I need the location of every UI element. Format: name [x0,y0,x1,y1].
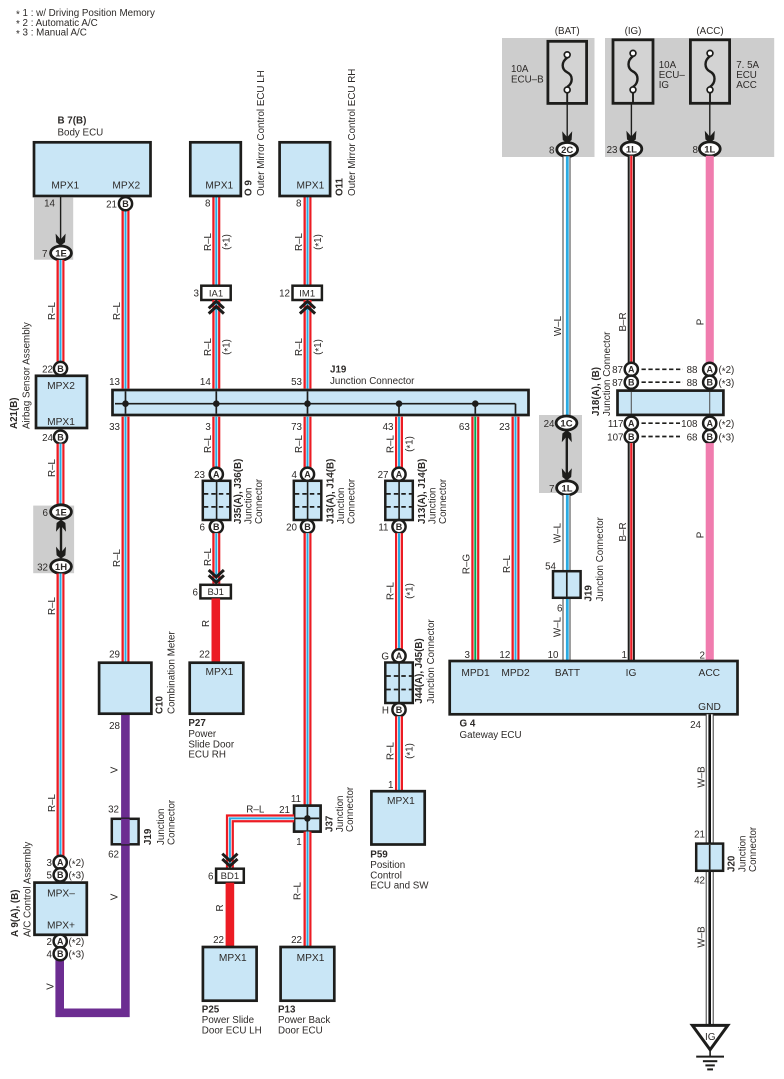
svg-text:J19: J19 [330,365,347,376]
svg-text:ECU RH: ECU RH [188,750,226,761]
svg-text:B: B [57,364,64,374]
svg-text:21: 21 [694,830,705,841]
svg-text:6: 6 [557,603,563,614]
svg-text:R–L: R–L [203,337,214,356]
svg-text:J20: J20 [727,855,738,872]
fuse 7.5A ECU-ACC (ACC) [690,26,759,103]
svg-text:C10: C10 [155,695,166,714]
svg-text:P13: P13 [278,1005,296,1016]
J19 bar pin labels bottom 33 3 73 43 63 23 [109,422,510,433]
svg-text:(*1): (*1) [222,339,234,355]
svg-text:3: 3 [47,858,53,869]
junction connector J19 (left small) pins 32 62 [108,799,177,860]
svg-text:A/C Control Assembly: A/C Control Assembly [23,842,34,937]
wire W-L from 2C to 1C [553,156,570,416]
svg-text:21: 21 [279,805,290,816]
svg-text:6: 6 [43,508,49,519]
svg-text:(*1): (*1) [222,234,234,250]
svg-text:R–L: R–L [294,434,305,453]
svg-text:Connector: Connector [345,786,356,832]
svg-text:MPX1: MPX1 [297,180,325,191]
junction connector J44(A) J45(B) [385,618,437,703]
junction connector J13(A) J14(B) first [294,459,358,524]
svg-text:P: P [695,318,706,325]
gray shade fuse block IG/ACC [605,38,774,157]
node circle A pin 2 (A/C MPX+) [47,935,85,950]
svg-text:IG: IG [705,1032,716,1043]
svg-text:Gateway ECU: Gateway ECU [460,730,522,741]
wire R-L from IA1 to J19 bar pin 14 [203,300,234,389]
svg-text:32: 32 [108,804,119,815]
svg-text:GND: GND [698,702,721,713]
svg-text:68: 68 [687,432,698,443]
svg-text:1H: 1H [55,562,67,573]
svg-text:H: H [382,706,389,717]
wire B-R from J18 to Gateway ECU IG pin 1 [618,443,635,661]
power back door ECU P13 pin 22 MPX1 [278,935,334,1036]
svg-text:A: A [396,470,403,480]
svg-text:23: 23 [607,145,618,156]
connector 1H pin 32 [37,560,71,574]
svg-text:2: 2 [700,651,705,662]
svg-text:Junction Connector: Junction Connector [426,618,437,703]
gateway ECU G4 terminals MPD1 MPD2 BATT IG ACC GND [450,650,738,741]
connector 1E pin 7 [42,246,71,260]
svg-text:B: B [396,522,403,532]
svg-text:A: A [628,419,635,429]
svg-text:MPX2: MPX2 [47,381,75,392]
double arrow link 1C to 1L [562,430,572,481]
svg-text:B: B [628,432,635,442]
svg-text:8: 8 [205,199,211,210]
wire R-L from J13 second circle B to J44 circle A [386,533,417,649]
svg-text:Outer Mirror Control ECU RH: Outer Mirror Control ECU RH [347,69,358,196]
svg-text:14: 14 [200,377,211,388]
node circle A pin 87-88 row1 on B-R [612,363,638,376]
svg-text:Airbag Sensor Assembly: Airbag Sensor Assembly [22,322,33,429]
chevron arrows above BD1 [222,854,237,866]
svg-text:B: B [57,432,64,442]
svg-text:MPX1: MPX1 [387,796,415,807]
svg-text:Connector: Connector [438,478,449,524]
svg-text:(*1): (*1) [404,583,416,599]
connector 1E pin 6 [43,505,72,519]
dashed link row2 [642,381,684,383]
chevron arrows below IA1 [209,301,224,313]
svg-text:J19: J19 [143,828,154,845]
svg-text:87: 87 [612,378,623,389]
power slide door ECU LH P25 pin 22 MPX1 [202,935,262,1036]
wire V from Combination Meter pin 28 to A/C Control MPX+ [46,714,126,1013]
svg-text:W–B: W–B [696,926,707,948]
svg-text:R–L: R–L [246,804,265,815]
svg-text:1L: 1L [561,483,572,494]
svg-text:12: 12 [499,650,510,661]
svg-text:1E: 1E [55,507,67,518]
connector 1L pin 8 [693,142,721,156]
svg-text:R–L: R–L [112,301,123,320]
svg-text:B–R: B–R [618,522,629,541]
node circle A pin 23 (J35) [194,468,223,481]
svg-text:(*2): (*2) [69,858,85,870]
svg-text:Door ECU LH: Door ECU LH [202,1026,262,1037]
svg-text:3: 3 [194,289,200,300]
node circle B pin 6 (J35) [200,520,223,533]
node circle B pin 68 row4 on P [687,430,735,445]
svg-text:B: B [122,199,129,209]
svg-text:J19: J19 [584,585,595,602]
svg-text:J35(A), J36(B): J35(A), J36(B) [233,459,244,524]
node circle B pin 11 (J13 second) [378,520,405,533]
svg-text:R–G: R–G [462,554,473,574]
svg-text:MPX1: MPX1 [51,180,79,191]
svg-text:6: 6 [208,872,214,883]
node circle B pin 5 (A/C MPX-) [47,868,85,883]
wire fuse ECU-ACC to connector 1L with arrow [705,103,715,143]
node circle A pin 108 row3 on P [681,417,734,432]
wire R-L from Body ECU MPX2 circle B to J19 bar pin 13 [112,210,129,388]
svg-text:ECU and SW: ECU and SW [370,881,429,892]
position control ECU and SW P59 pin 1 MPX1 [370,780,429,891]
svg-text:107: 107 [607,432,623,443]
svg-text:27: 27 [378,470,389,481]
svg-text:1L: 1L [626,144,637,155]
wire R-L from 1E to Airbag Sensor MPX2 circle B pin 22 [47,260,64,362]
gray shade around connectors 1E/1H [33,506,74,574]
svg-text:(*2): (*2) [719,419,735,431]
svg-text:14: 14 [44,199,55,210]
connector BD1 pin 6 [208,869,244,883]
svg-text:22: 22 [291,935,302,946]
svg-text:R–L: R–L [47,458,58,477]
node circle A pin 4 (J13 first) [292,468,315,481]
wire black Body ECU pin 14 to 1E [56,197,66,246]
svg-text:W–L: W–L [553,522,564,543]
node circle B pin 20 (J13 first) [286,520,314,533]
svg-text:8: 8 [549,146,555,157]
svg-text:63: 63 [459,422,470,433]
svg-text:A: A [396,651,403,661]
node circle A pin G (J44) [381,649,405,662]
svg-text:29: 29 [109,649,120,660]
svg-text:3: 3 [465,650,471,661]
svg-text:10: 10 [548,650,559,661]
svg-text:24: 24 [690,720,701,731]
outer mirror control ECU LH O9 MPX1 pin 8 [190,70,267,209]
svg-text:R–L: R–L [386,581,397,600]
svg-text:BD1: BD1 [221,871,239,882]
svg-text:MPX–: MPX– [47,888,75,899]
svg-text:R–L: R–L [294,232,305,251]
svg-text:62: 62 [108,850,119,861]
wire R-L from Outer Mirror LH MPX1 pin 8 to IA1 [203,196,234,286]
svg-text:R–L: R–L [203,434,214,453]
svg-text:Body ECU: Body ECU [58,127,104,138]
wire R-L from IM1 to J19 bar pin 53 [294,300,325,389]
connector IA1 pin 3 [194,286,231,300]
svg-text:B: B [628,378,635,388]
svg-text:J37: J37 [324,815,335,832]
svg-text:R–L: R–L [386,741,397,760]
svg-text:B: B [213,522,220,532]
svg-text:R–L: R–L [203,232,214,251]
svg-text:(*3): (*3) [719,378,735,390]
node circle B pin 87-88 row2 on B-R [612,376,638,389]
node circle A pin 88 row1 on P [687,363,735,378]
wire R-L horizontal from J37 pin 21 to chevron BD1 [230,804,294,868]
svg-text:3: 3 [205,422,211,433]
svg-text:BJ1: BJ1 [208,587,224,598]
fuse 10A ECU-B (BAT) [511,26,587,103]
svg-text:(*3): (*3) [719,432,735,444]
svg-text:(BAT): (BAT) [555,26,580,37]
node circle B pin 107-68 row4 on B-R [607,430,638,443]
svg-text:R–L: R–L [502,554,513,573]
svg-text:B: B [304,522,311,532]
svg-text:R–L: R–L [203,547,214,566]
svg-text:1: 1 [622,650,627,661]
svg-text:ACC: ACC [699,668,721,679]
J19 bar pin labels top 13 14 53 [109,377,302,388]
svg-text:28: 28 [109,721,120,732]
svg-text:IA1: IA1 [209,288,223,299]
svg-text:P25: P25 [202,1005,220,1016]
svg-text:R–L: R–L [386,434,397,453]
svg-text:(*1): (*1) [404,436,416,452]
svg-text:MPX1: MPX1 [47,417,75,428]
svg-text:108: 108 [681,419,698,430]
svg-text:24: 24 [42,433,53,444]
svg-text:(*1): (*1) [313,234,325,250]
wire P from J18 to Gateway ECU ACC pin 2 [695,443,714,661]
node circle B pin 24 (Airbag MPX1) [42,431,67,444]
svg-text:6: 6 [193,588,199,599]
wire R-L from J37 pin 1 to Power Back Door ECU pin 22 [304,832,312,947]
wire R-L from J35 circle B to chevron BJ1 [203,533,220,585]
svg-text:J18(A), (B): J18(A), (B) [591,367,602,416]
svg-text:A: A [706,365,713,375]
wire B-R from 1L(23) to junction connector J18 circle A [618,156,635,363]
svg-text:R–L: R–L [47,301,58,320]
junction connector J18(A) (B) [591,331,724,416]
ground IG [692,1025,727,1069]
legend notes *1 *2 *3 [16,8,155,40]
svg-text:1C: 1C [560,419,572,430]
svg-text:22: 22 [213,935,224,946]
combination meter C10 pins 29 28 [99,630,178,731]
svg-text:1E: 1E [55,249,67,260]
node circle A pin 27 (J13 second) [378,468,406,481]
svg-text:IM1: IM1 [299,288,315,299]
svg-text:1: 1 [388,780,393,791]
svg-text:88: 88 [687,378,698,389]
svg-text:7: 7 [549,484,554,495]
chevron arrows below IM1 [300,301,315,313]
wire W-B from Gateway GND pin 24 to J20 [690,714,714,843]
power slide door ECU RH P27 pin 22 MPX1 [188,650,243,761]
node circle B pin 4 (A/C MPX+) [47,947,85,962]
wire R-L from J19 pin 73 to J13 circle A [294,417,311,468]
svg-text:V: V [46,983,57,990]
connector 1L pin 7 [549,481,577,495]
svg-text:6: 6 [200,522,206,533]
svg-text:Outer Mirror Control ECU LH: Outer Mirror Control ECU LH [256,70,267,196]
svg-text:B: B [706,378,713,388]
svg-text:2: 2 [47,937,52,948]
node circle B pin 22 (Airbag MPX2) [42,362,67,375]
gray shade fuse block BAT [502,38,595,157]
svg-text:G: G [381,652,389,663]
wire R-L from J19 bar pin 33 to Combination Meter pin 29 [112,417,129,663]
svg-text:MPX+: MPX+ [47,920,75,931]
svg-text:V: V [110,893,121,900]
svg-text:MPX1: MPX1 [206,667,234,678]
svg-text:MPX1: MPX1 [219,953,247,964]
svg-text:R–L: R–L [112,548,123,567]
junction connector J13(A) J14(B) second [385,459,449,524]
chevron arrows above BJ1 [209,570,224,582]
svg-text:A: A [57,937,64,947]
airbag sensor assembly A21(B) [9,322,87,429]
outer mirror control ECU RH O11 MPX1 pin 8 [280,69,359,210]
dashed link row3 [642,422,681,424]
svg-text:BATT: BATT [555,668,580,679]
svg-text:5: 5 [47,871,53,882]
svg-text:MPX2: MPX2 [112,180,140,191]
svg-text:B: B [396,705,403,715]
svg-text:21: 21 [106,200,117,211]
svg-text:22: 22 [199,650,210,661]
svg-text:J13(A), J14(B): J13(A), J14(B) [325,459,336,524]
svg-text:P27: P27 [188,718,206,729]
svg-text:8: 8 [296,199,302,210]
svg-text:* 3 : Manual A/C: * 3 : Manual A/C [16,28,87,40]
svg-text:(ACC): (ACC) [696,26,723,37]
svg-text:B: B [706,432,713,442]
svg-text:G 4: G 4 [460,718,476,729]
svg-text:MPX1: MPX1 [205,180,233,191]
svg-text:IG: IG [626,668,637,679]
svg-text:117: 117 [608,419,624,430]
svg-text:R: R [201,620,212,627]
junction connector J37 pins 11 21 1 [279,786,356,848]
svg-text:Combination Meter: Combination Meter [167,630,178,714]
svg-text:IG: IG [659,80,669,91]
svg-text:A 9(A), (B): A 9(A), (B) [10,889,21,937]
svg-text:Junction Connector: Junction Connector [595,516,606,601]
junction connector J35(A) J36(B) [203,459,265,524]
svg-text:Connector: Connector [346,478,357,524]
svg-text:8: 8 [693,145,699,156]
junction connector J19 (right small) pins 54 6 [545,516,606,661]
svg-text:(*2): (*2) [719,365,735,377]
svg-text:Door ECU: Door ECU [278,1026,323,1037]
svg-text:MPD1: MPD1 [461,668,490,679]
svg-text:B: B [57,870,64,880]
wire R-L from J13 circle B to J37 pin 11 [293,533,312,900]
svg-text:12: 12 [279,289,290,300]
svg-text:B 7(B): B 7(B) [58,116,87,127]
svg-text:J13(A), J14(B): J13(A), J14(B) [417,459,428,524]
svg-text:A: A [706,419,713,429]
svg-text:Junction Connector: Junction Connector [602,331,613,416]
svg-text:A: A [213,470,220,480]
svg-text:W–L: W–L [553,315,564,336]
node circle A pin 117-108 row3 on B-R [608,417,638,430]
wire R from BD1 to Power Slide Door ECU LH pin 22 [215,883,234,947]
svg-text:MPD2: MPD2 [501,668,530,679]
gray shade around connectors 1C/1L [539,415,582,493]
svg-text:R–L: R–L [293,881,304,900]
svg-text:(*2): (*2) [69,937,85,949]
svg-text:54: 54 [545,561,556,572]
wire fuse ECU-B to connector 2C with arrow [562,103,572,143]
svg-text:ACC: ACC [736,80,757,91]
gray shade around Body ECU pin 14 internal link [34,198,73,260]
connector 1C pin 24 [544,416,577,430]
svg-text:1: 1 [296,837,301,848]
svg-text:R–L: R–L [47,596,58,615]
svg-text:(*3): (*3) [69,871,85,883]
svg-text:10A: 10A [511,64,529,75]
wire R-L from J19 pin 43 to J13 second circle A [386,417,417,468]
svg-text:R: R [215,904,226,911]
svg-text:W–B: W–B [696,766,707,788]
svg-text:A: A [304,470,311,480]
svg-text:P59: P59 [370,850,388,861]
junction connector J19 (main bar) [113,365,529,415]
wire R-L from J19 pin 3 to J35 circle A [203,417,220,468]
fuse 10A ECU-IG (IG) [613,26,685,103]
svg-text:87: 87 [612,365,623,376]
svg-text:32: 32 [37,563,48,574]
svg-text:R–L: R–L [294,337,305,356]
svg-text:20: 20 [286,522,297,533]
connector IM1 pin 12 [279,286,322,300]
svg-text:Connector: Connector [748,826,759,872]
svg-text:(IG): (IG) [625,26,642,37]
svg-text:42: 42 [694,875,705,886]
connector 1L pin 23 [607,142,642,156]
body ECU B7(B) MPX1 MPX2 [34,116,151,210]
svg-text:23: 23 [194,470,205,481]
connector 2C pin 8 [549,143,578,157]
node circle B pin 88 row2 on P [687,376,735,391]
svg-text:7: 7 [42,249,47,260]
svg-text:43: 43 [383,422,394,433]
svg-text:4: 4 [292,470,298,481]
svg-text:O 9: O 9 [244,180,255,196]
svg-text:1L: 1L [704,144,715,155]
dashed link row4 [642,436,681,438]
svg-text:53: 53 [291,377,302,388]
svg-text:W–L: W–L [553,616,564,637]
wire W-L from 1L to J19 junction connector pin 54 [553,495,571,571]
node circle A pin 3 (A/C MPX-) [47,856,85,871]
svg-text:2C: 2C [561,145,573,156]
node circle B pin 21 (Body MPX2) [106,197,132,210]
svg-text:22: 22 [42,364,53,375]
wire R-L from Airbag MPX1 to 1E [47,444,64,505]
svg-text:88: 88 [687,365,698,376]
svg-text:4: 4 [47,950,53,961]
svg-text:R–L: R–L [47,793,58,812]
node circle B pin H (J44) [382,703,406,716]
svg-text:(*1): (*1) [313,339,325,355]
wire P from 1L(8) to junction connector J18 circle A [695,156,714,363]
svg-text:33: 33 [109,422,120,433]
svg-text:A: A [57,858,64,868]
